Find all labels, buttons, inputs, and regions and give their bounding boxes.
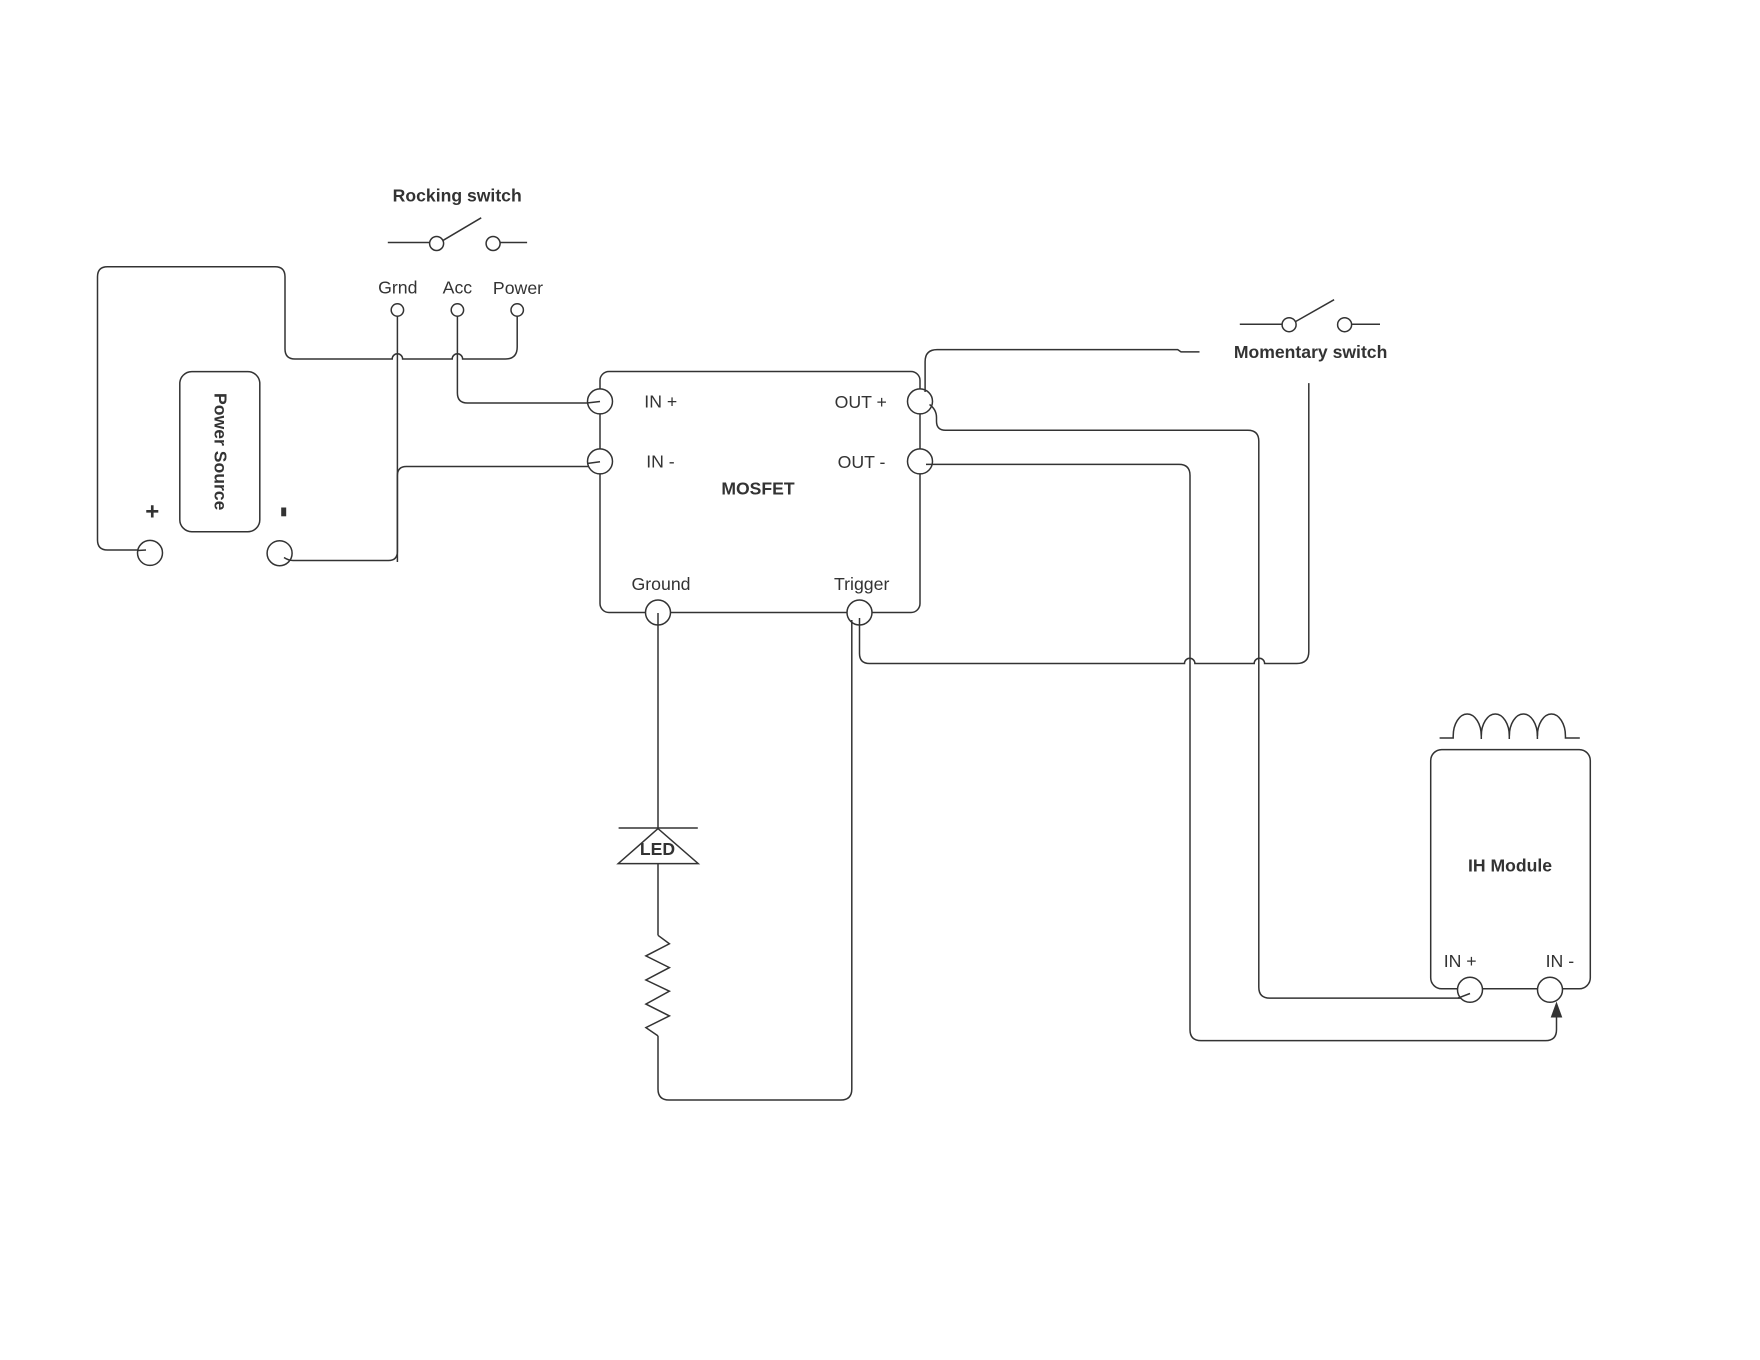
MOSFET pin circle IN+ bbox=[588, 389, 613, 414]
svg-text:Grnd: Grnd bbox=[378, 278, 417, 298]
MOSFET pin circle IN- bbox=[588, 449, 613, 474]
momentary switch: left lead wire bbox=[1240, 323, 1282, 325]
terminal circle Power bbox=[511, 304, 523, 316]
svg-text:IN +: IN + bbox=[644, 391, 677, 411]
svg-text:LED: LED bbox=[640, 839, 675, 859]
wire: Trigger elbow right and up to momentary switch (with hops over OUT- and OUT+ drops) bbox=[860, 383, 1309, 663]
wire: - terminal to MOSFET IN- pin (via vertical shared with Grnd wire) bbox=[284, 462, 600, 561]
svg-text:IN -: IN - bbox=[1546, 951, 1575, 971]
svg-text:MOSFET: MOSFET bbox=[721, 478, 795, 498]
svg-text:IH Module: IH Module bbox=[1468, 856, 1552, 876]
terminal circle Grnd bbox=[391, 304, 403, 316]
LED cathode bar bbox=[619, 827, 698, 829]
power source + terminal circle bbox=[138, 540, 163, 565]
MOSFET pin circle Ground bbox=[646, 600, 671, 625]
IH Module box bbox=[1431, 750, 1591, 989]
IH Module pin circle IN+ bbox=[1458, 977, 1483, 1002]
inductor coil joint ticks bbox=[1481, 733, 1537, 739]
power source box bbox=[180, 372, 260, 532]
momentary switch: right lead wire bbox=[1352, 323, 1380, 325]
MOSFET box bbox=[600, 372, 920, 613]
momentary switch: lever arm bbox=[1296, 300, 1334, 322]
svg-text:OUT -: OUT - bbox=[838, 452, 886, 472]
MOSFET pin circle OUT- bbox=[908, 449, 933, 474]
svg-text:IN +: IN + bbox=[1444, 951, 1477, 971]
momentary switch: pole contact circle bbox=[1282, 318, 1296, 332]
IH Module pin circle IN- bbox=[1538, 977, 1563, 1002]
arrowhead at IH Module IN- bbox=[1551, 1002, 1563, 1018]
power source - terminal circle bbox=[267, 541, 292, 566]
svg-text:Momentary switch: Momentary switch bbox=[1234, 342, 1388, 362]
wire: MOSFET Ground pin down to LED anode bbox=[657, 613, 659, 828]
wire: tick into + terminal bbox=[138, 549, 146, 552]
svg-text:Power Source: Power Source bbox=[211, 393, 231, 511]
svg-text:Rocking switch: Rocking switch bbox=[393, 186, 522, 206]
svg-text:Power: Power bbox=[493, 278, 543, 298]
svg-text:Trigger: Trigger bbox=[834, 574, 889, 594]
rocking switch: lever arm bbox=[443, 218, 481, 241]
svg-text:Acc: Acc bbox=[443, 278, 473, 298]
power source - polarity mark bbox=[281, 508, 286, 517]
wire: resistor bottom looping right and up to Trigger pin bbox=[658, 620, 852, 1100]
wire: OUT+ right and down to IH Module IN+ bbox=[930, 405, 1471, 999]
resistor R (zigzag) bbox=[646, 935, 670, 1036]
rocking switch: left lead wire bbox=[388, 242, 430, 244]
wire: OUT- right and down to IH Module IN- (arrow end) bbox=[926, 464, 1557, 1040]
wire tick: into IH IN+ pin bbox=[1458, 994, 1470, 999]
momentary switch: throw contact circle bbox=[1338, 318, 1352, 332]
rocking switch: pole contact circle bbox=[430, 237, 444, 251]
rocking switch: right lead wire bbox=[500, 242, 527, 244]
svg-text:OUT +: OUT + bbox=[835, 392, 887, 412]
wire: Grnd terminal down to power source minus node bbox=[396, 316, 398, 562]
MOSFET pin circle Trigger bbox=[847, 600, 872, 625]
svg-text:+: + bbox=[145, 499, 159, 526]
wire: OUT+ up and right toward momentary switch (open end) bbox=[925, 350, 1199, 392]
terminal circle Acc bbox=[451, 304, 463, 316]
inductor coil on top of IH Module bbox=[1440, 714, 1580, 738]
wire tick: minus wire end inside IN- bbox=[588, 462, 600, 464]
wire: Acc terminal down and right to MOSFET IN+ pin bbox=[457, 316, 600, 403]
svg-text:IN -: IN - bbox=[646, 452, 675, 472]
wire tick: Acc wire end inside IN+ bbox=[588, 402, 600, 403]
rocking switch: throw contact circle bbox=[486, 237, 500, 251]
wire: LED to resistor bbox=[657, 864, 659, 935]
LED triangle body bbox=[618, 829, 698, 864]
wire: power source + terminal to rocking switch Power pin (with hops over Grnd and Acc wires) bbox=[98, 267, 518, 550]
MOSFET pin circle OUT+ bbox=[908, 389, 933, 414]
svg-text:Ground: Ground bbox=[632, 574, 691, 594]
